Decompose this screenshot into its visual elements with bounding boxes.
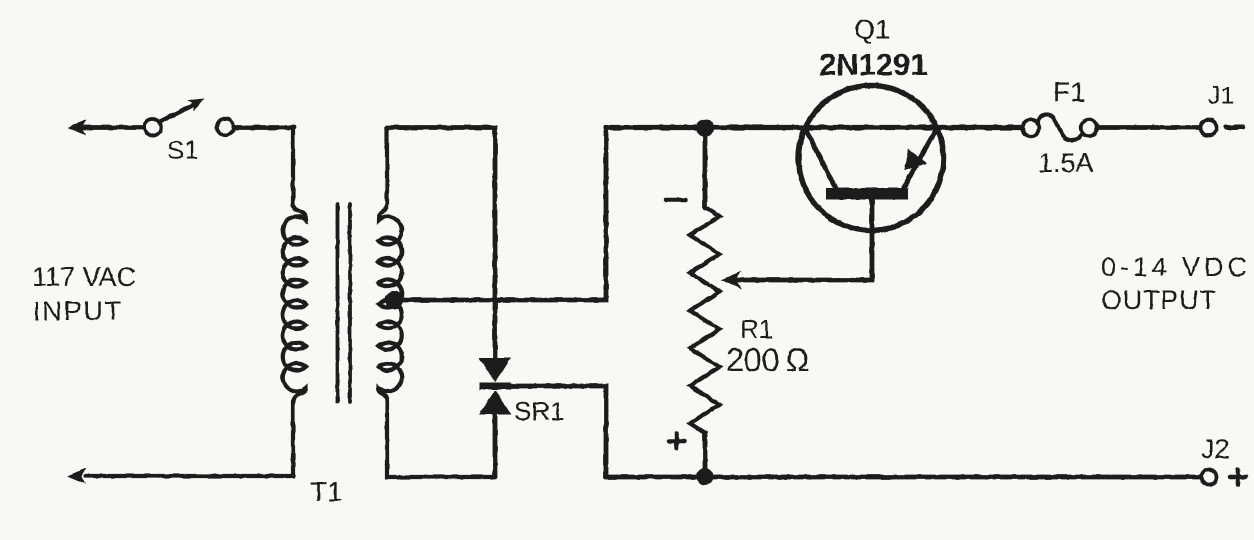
wire: R1 bottom lead	[703, 433, 708, 477]
svg-text:SR1: SR1	[514, 396, 565, 426]
label plus at J2	[1230, 475, 1246, 480]
wire: fuse to J1	[1098, 125, 1201, 130]
svg-text:F1: F1	[1053, 77, 1086, 108]
label minus at R1 top	[666, 198, 685, 203]
resistor R1 zigzag	[690, 207, 720, 433]
rectifier SR1 top diode	[479, 358, 511, 382]
svg-text:J2: J2	[1201, 434, 1230, 464]
svg-text:R1: R1	[740, 314, 773, 344]
transformer T1 primary winding	[86, 128, 306, 477]
svg-text:OUTPUT: OUTPUT	[1101, 285, 1217, 315]
transistor Q1 right lead	[903, 128, 937, 189]
jack J1 circle	[1201, 120, 1217, 136]
svg-text:Q1: Q1	[854, 15, 890, 45]
label plus at R1 bottom	[669, 439, 684, 444]
fuse F1 right circle	[1081, 120, 1098, 137]
svg-text:2N1291: 2N1291	[819, 47, 928, 82]
wire: bottom rail to J2	[606, 475, 1201, 480]
fuse F1 element	[1038, 114, 1083, 140]
wire: R1 top lead	[703, 128, 708, 208]
transformer T1 core lines	[336, 204, 340, 402]
wire: SR1 bottom lead	[493, 413, 498, 477]
transistor Q1 circle	[799, 86, 944, 231]
node: R1 bottom junction dot	[697, 468, 714, 485]
wire: secondary top lead to SR1 top	[387, 128, 495, 360]
switch S1 lever	[160, 105, 194, 122]
svg-text:117 VAC: 117 VAC	[32, 262, 136, 292]
svg-text:J1: J1	[1208, 82, 1234, 110]
transformer T1 secondary winding	[379, 128, 495, 478]
switch S1 contact circle right	[217, 119, 234, 136]
wire: center tap to top rail	[394, 128, 606, 301]
arrow: wiper arrowhead	[721, 271, 742, 289]
transistor Q1 left lead	[805, 128, 836, 189]
transistor Q1 emitter arrowhead	[904, 148, 927, 170]
rectifier SR1 cathode bar	[479, 383, 511, 390]
svg-text:1.5A: 1.5A	[1038, 148, 1094, 178]
arrow: top-left line arrowhead	[67, 120, 86, 136]
svg-text:INPUT: INPUT	[33, 296, 123, 326]
switch S1 lever arrowhead	[187, 99, 204, 112]
rectifier SR1 bottom diode	[479, 390, 511, 414]
label minus at J1	[1226, 125, 1243, 130]
switch S1 contact circle left	[144, 119, 161, 136]
jack J2 circle	[1202, 470, 1217, 485]
wire: top-left AC lead	[78, 125, 144, 130]
wire: top rail from center tap riser to fuse	[606, 125, 1022, 130]
node: secondary center tap junction dot	[385, 291, 403, 309]
svg-text:S1: S1	[167, 135, 199, 165]
wire: R1 wiper to Q1 base	[736, 199, 872, 280]
transistor Q1 base bar	[826, 188, 908, 200]
node: R1 top junction dot	[696, 119, 714, 137]
wire: SR1 output to bottom rail	[508, 386, 606, 477]
svg-text:200 Ω: 200 Ω	[726, 342, 810, 378]
arrow: bottom-left line arrowhead	[67, 468, 86, 484]
svg-text:0-14 VDC: 0-14 VDC	[1101, 252, 1251, 282]
svg-text:T1: T1	[310, 476, 343, 507]
wire: S1 to transformer primary top	[234, 125, 295, 130]
fuse F1 left circle	[1023, 120, 1040, 137]
